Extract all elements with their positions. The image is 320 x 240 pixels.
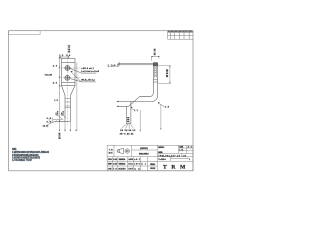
svg-text:1.0: 1.0 (132, 130, 136, 132)
svg-text:ANG: ANG (128, 158, 133, 161)
svg-text:YAMADA: YAMADA (118, 163, 125, 166)
svg-text:1: 1 (189, 159, 191, 161)
svg-text:1/1: 1/1 (179, 150, 184, 152)
svg-text:T.S: T.S (113, 168, 117, 170)
svg-text:DSG: DSG (108, 159, 112, 161)
svg-text:A4: A4 (188, 146, 193, 149)
svg-text:+Ø2.6 ±0.1: +Ø2.6 ±0.1 (81, 68, 94, 70)
svg-text:T.R: T.R (109, 149, 113, 151)
svg-text:NO RECORD DATE APVD CHKD: NO RECORD DATE APVD CHKD (168, 30, 193, 33)
svg-text:L=2.0×4 t=.5+Ø: L=2.0×4 t=.5+Ø (81, 70, 99, 73)
svg-text:1.5: 1.5 (165, 107, 170, 109)
svg-text:4.6: 4.6 (53, 82, 58, 85)
svg-text:A 1: A 1 (141, 163, 146, 166)
svg-text:1.1±0.1: 1.1±0.1 (108, 65, 120, 67)
svg-text:FINISH: FINISH (150, 164, 155, 166)
svg-text:UNT: UNT (128, 168, 133, 170)
svg-text:.8: .8 (61, 112, 64, 114)
svg-text:TcM84: TcM84 (158, 158, 166, 161)
svg-text:0.6: 0.6 (66, 55, 71, 57)
svg-text:0.4: 0.4 (47, 117, 52, 120)
svg-text:10/1: 10/1 (134, 164, 140, 166)
svg-text:CHK: CHK (108, 168, 112, 170)
svg-text:SURF.: SURF. (150, 168, 156, 170)
svg-text:DWG NO: DWG NO (158, 147, 164, 149)
svg-text:M.K: M.K (109, 152, 113, 154)
svg-text:MODEL: MODEL (158, 152, 163, 154)
svg-text:4.6: 4.6 (53, 65, 58, 68)
svg-text:S=5/1: S=5/1 (179, 147, 184, 149)
svg-text:(0.3): (0.3) (43, 126, 49, 128)
svg-text:BRACKET-9: BRACKET-9 (139, 152, 149, 155)
svg-text:DRW: DRW (108, 164, 112, 166)
svg-text:4. PACKING: TRAY: 4. PACKING: TRAY (12, 159, 32, 162)
svg-text:10: 10 (54, 100, 58, 102)
svg-text:D.M: D.M (113, 159, 117, 161)
svg-text:(PRODUCT): (PRODUCT) (140, 148, 148, 150)
svg-text:mm: mm (134, 168, 140, 170)
svg-text:.8: .8 (56, 112, 59, 114)
svg-text:TRM: TRM (163, 165, 190, 171)
svg-text:±0.1: ±0.1 (134, 159, 140, 161)
svg-text:1/1: 1/1 (183, 155, 187, 157)
svg-text:TRM-064-017-19: TRM-064-017-19 (158, 154, 180, 157)
svg-text:SUZUKI: SUZUKI (118, 168, 125, 170)
svg-text:0.8: 0.8 (120, 130, 124, 132)
svg-text:7±0.05: 7±0.05 (45, 75, 53, 77)
svg-text:1: 1 (132, 134, 134, 136)
svg-text:45°: 45° (120, 133, 124, 136)
svg-text:Ø0.5+.05 d.p: Ø0.5+.05 d.p (81, 80, 95, 82)
svg-text:SCL: SCL (128, 164, 133, 166)
svg-text:D.M: D.M (113, 164, 117, 166)
svg-text:YAMADA: YAMADA (118, 158, 125, 161)
svg-text:1.2: 1.2 (59, 55, 64, 57)
svg-text:1.1: 1.1 (134, 110, 139, 112)
